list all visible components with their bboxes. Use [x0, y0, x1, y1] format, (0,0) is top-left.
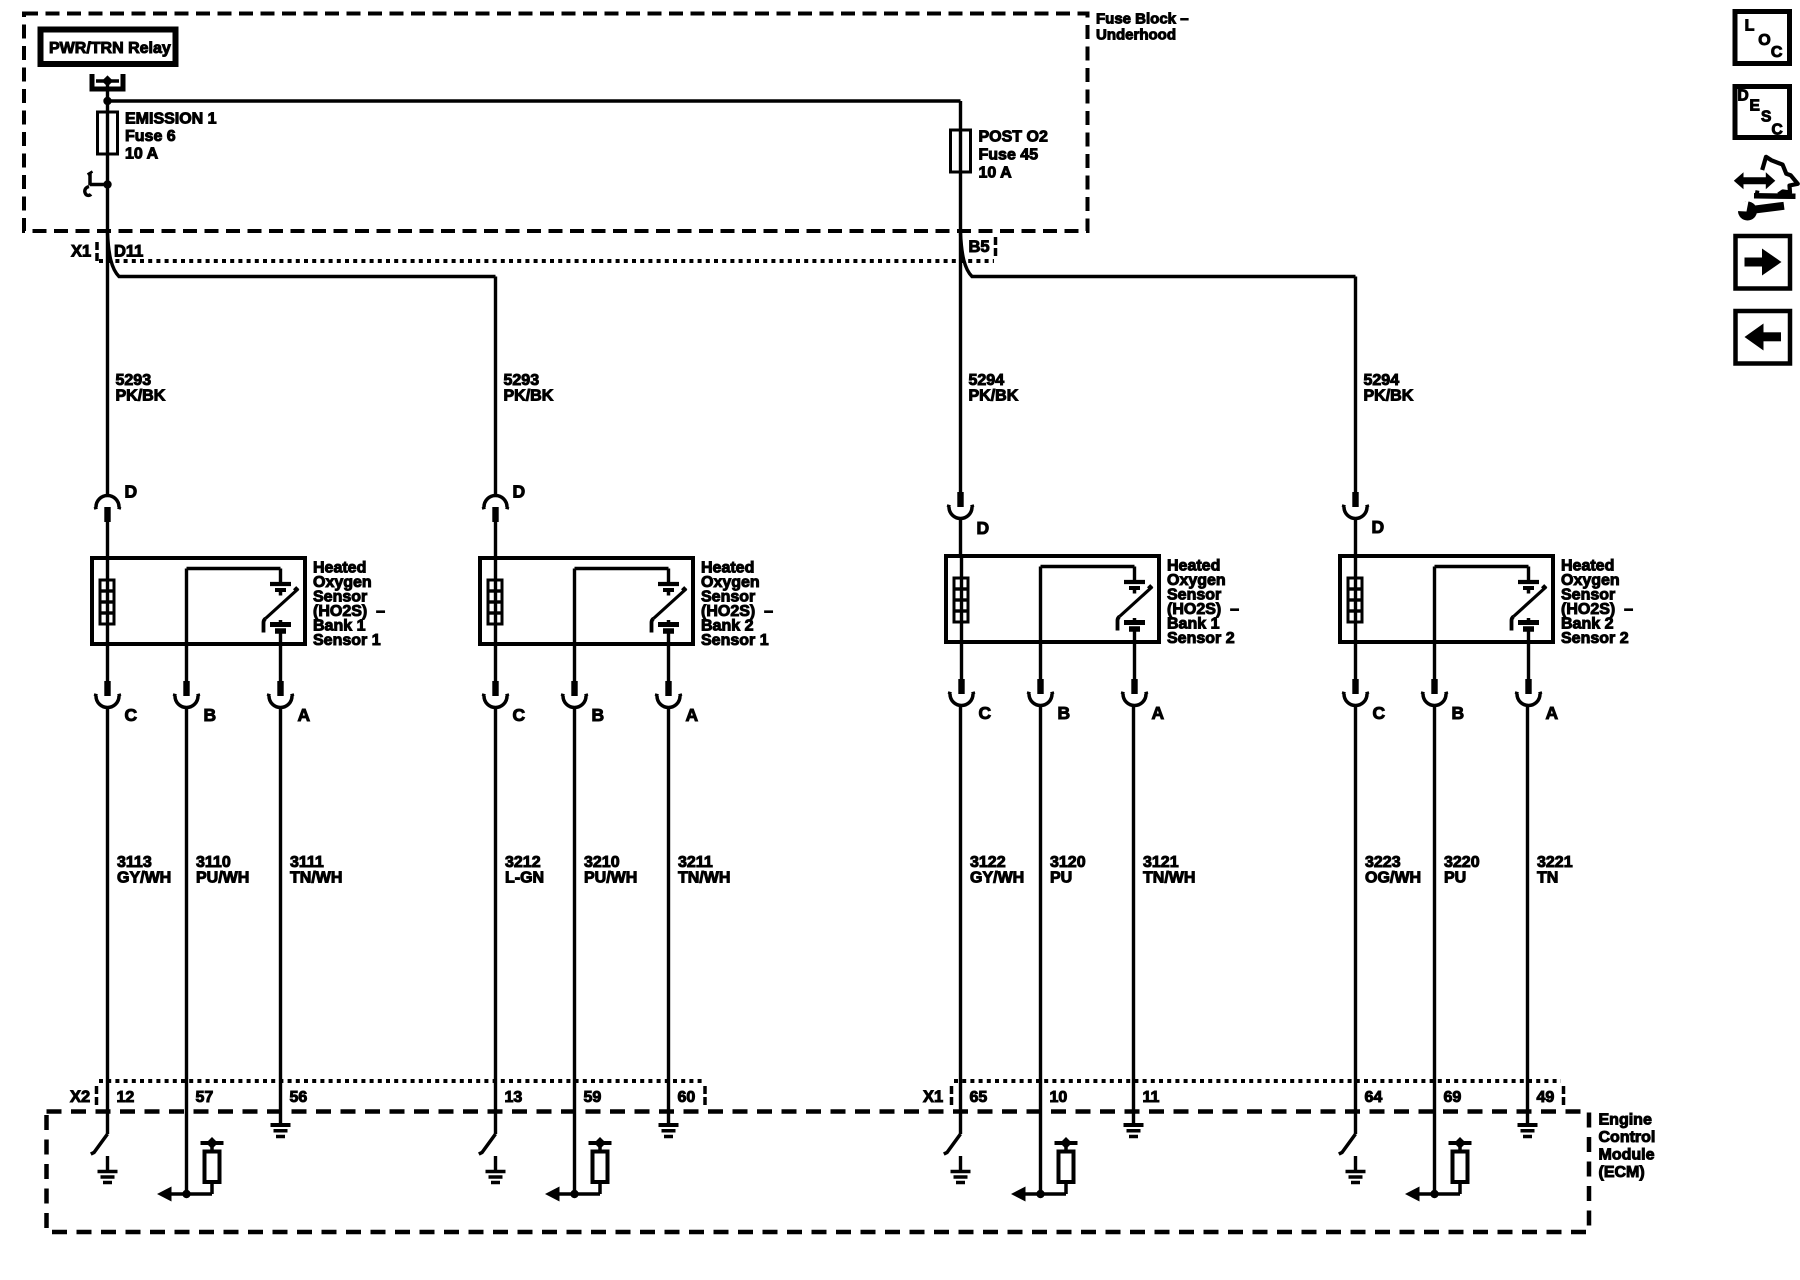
wire 3220 PU [1433, 706, 1436, 1194]
wire: B2S2 box to pin A [1527, 642, 1530, 679]
wire 3210 PU/WH [573, 708, 576, 1194]
svg-text:Sensor 1: Sensor 1 [313, 632, 381, 649]
ground pin 11 [1124, 1125, 1144, 1137]
svg-text:Fuse 6: Fuse 6 [125, 128, 176, 145]
wire label 3211 TN/WH [678, 854, 730, 887]
svg-text:56: 56 [290, 1089, 308, 1106]
ECM arrow pin 57 [157, 1187, 187, 1202]
pin connector C B1S1 [94, 681, 138, 725]
icon wrench [1736, 201, 1784, 221]
svg-text:60: 60 [678, 1089, 696, 1106]
connector B5 label [969, 237, 996, 256]
wire: B1S1 sense internal [187, 569, 281, 645]
svg-text:A: A [298, 705, 311, 725]
svg-text:C: C [979, 703, 992, 723]
ECM pin 49 label [1537, 1089, 1555, 1106]
pin connector A B2S2 [1515, 679, 1559, 723]
wire: B1S2 box to pin A [1133, 642, 1136, 679]
wire: contact down to HO2S B1S1 D [106, 185, 109, 497]
svg-text:X1: X1 [923, 1088, 943, 1106]
svg-text:PK/BK: PK/BK [969, 388, 1019, 405]
ECM pin 59 label [584, 1089, 602, 1106]
svg-text:3120: 3120 [1050, 854, 1086, 871]
pin connector A B1S1 [267, 681, 311, 725]
ECM switch blade pin 64 [1339, 1134, 1356, 1154]
svg-text:C: C [1771, 44, 1783, 61]
wire label 3122 GY/WH [970, 854, 1024, 887]
connector face dotted line [99, 259, 994, 263]
ECM pin 11 label [1143, 1089, 1160, 1106]
svg-text:TN: TN [1537, 870, 1558, 887]
svg-text:Sensor 1: Sensor 1 [701, 632, 769, 649]
wire 3121 TN/WH [1132, 706, 1135, 1123]
wire label 3220 PU [1444, 854, 1480, 887]
svg-text:Control: Control [1599, 1129, 1656, 1146]
svg-text:Fuse Block –: Fuse Block – [1096, 11, 1189, 28]
wire: B1S2 box to pin B [1039, 642, 1042, 679]
ECM sense resistor pin 10 [1041, 1137, 1078, 1194]
wire: B2S2 sense internal [1435, 567, 1529, 643]
ECM label [1599, 1112, 1656, 1182]
pin connector B B1S2 [1027, 679, 1070, 723]
svg-text:Sensor 2: Sensor 2 [1167, 630, 1235, 647]
svg-text:13: 13 [505, 1089, 523, 1106]
HO2S B1S1 text [313, 560, 385, 650]
svg-text:Engine: Engine [1599, 1112, 1652, 1129]
ECM pin 10 label [1050, 1089, 1068, 1106]
HO2S B2S1 box + heater [480, 558, 693, 644]
wire: B2S1 box to pin C [494, 644, 497, 681]
node: pin 10 junction [1036, 1190, 1044, 1198]
pin connector A B2S1 [655, 681, 699, 725]
svg-text:EMISSION 1: EMISSION 1 [125, 111, 217, 128]
wire label 3111 TN/WH [290, 854, 342, 887]
wire label 3223 OG/WH [1365, 854, 1421, 887]
svg-text:Module: Module [1599, 1147, 1655, 1164]
svg-text:GY/WH: GY/WH [117, 870, 171, 887]
relay PWR/TRN label box [41, 30, 176, 65]
ECM sense resistor pin 59 [575, 1137, 612, 1194]
ECM dashed box [47, 1112, 1590, 1233]
inline connector D branch4 [1342, 492, 1384, 537]
svg-text:E: E [1750, 98, 1760, 115]
svg-text:49: 49 [1537, 1089, 1555, 1106]
ECM connector face dotted right [954, 1079, 1561, 1083]
svg-text:11: 11 [1143, 1089, 1160, 1106]
wire: heater B1S2 [960, 556, 963, 642]
ground pin 56 [271, 1125, 291, 1137]
wire: branch 4 drop [1354, 277, 1357, 493]
svg-text:D: D [1372, 517, 1385, 537]
icon forward box [1736, 236, 1791, 289]
wire: junction down through fuse 6 [106, 101, 109, 185]
svg-text:3122: 3122 [970, 854, 1006, 871]
svg-text:5294: 5294 [969, 372, 1005, 389]
wire label 3110 PU/WH [196, 854, 249, 887]
svg-text:3211: 3211 [678, 854, 713, 871]
pin connector B B1S1 [173, 681, 216, 725]
fuse block - underhood dashed box [24, 14, 1088, 232]
svg-text:C: C [1373, 703, 1386, 723]
svg-text:B: B [1452, 703, 1465, 723]
wire: main feed horizontal [108, 99, 961, 102]
wire: B2S2 box to pin C [1354, 642, 1357, 679]
svg-text:3221: 3221 [1537, 854, 1573, 871]
wire label 5294 PK/BK [1364, 372, 1414, 405]
ECM sense resistor pin 57 [187, 1137, 224, 1194]
svg-text:3113: 3113 [117, 854, 152, 871]
ECM arrow pin 69 [1405, 1187, 1435, 1202]
svg-text:C: C [125, 705, 138, 725]
wire 3212 L-GN [494, 708, 497, 1134]
ECM connector separator right of 49 [1562, 1086, 1566, 1105]
svg-text:D: D [513, 482, 526, 502]
ECM connector separator right of 60 [703, 1086, 707, 1105]
icon back box [1736, 311, 1791, 364]
icon DESC box [1735, 87, 1790, 139]
svg-text:A: A [1152, 703, 1165, 723]
svg-text:3121: 3121 [1143, 854, 1179, 871]
ECM connector X1 label [923, 1086, 952, 1106]
wire: heater B2S2 [1354, 556, 1357, 642]
ECM pin 65 label [970, 1089, 988, 1106]
svg-text:PK/BK: PK/BK [504, 388, 554, 405]
pin connector B B2S2 [1421, 679, 1464, 723]
wire 3110 PU/WH [185, 708, 188, 1194]
ECM switch blade pin 65 [944, 1134, 961, 1154]
svg-text:Fuse 45: Fuse 45 [979, 147, 1039, 164]
wire label 3210 PU/WH [584, 854, 637, 887]
svg-text:D: D [977, 518, 990, 538]
ECM connector X2 label [70, 1086, 97, 1106]
svg-text:A: A [686, 705, 699, 725]
svg-text:TN/WH: TN/WH [290, 870, 342, 887]
svg-text:PK/BK: PK/BK [116, 388, 166, 405]
icon nav arrow outline [1754, 157, 1798, 197]
wire 3223 OG/WH [1354, 706, 1357, 1134]
svg-text:X1: X1 [71, 243, 91, 261]
ground (ECM) pin 12 [98, 1156, 118, 1183]
HO2S B2S2 box + heater [1340, 556, 1553, 642]
svg-text:57: 57 [196, 1089, 214, 1106]
svg-text:D11: D11 [114, 243, 143, 261]
inline connector D branch3 [947, 492, 989, 538]
svg-text:POST O2: POST O2 [979, 129, 1048, 146]
node: feed junction [103, 97, 111, 105]
ground pin 49 [1518, 1125, 1538, 1137]
wire label 5294 PK/BK [969, 372, 1019, 405]
svg-text:5293: 5293 [504, 372, 540, 389]
HO2S B1S2 text [1167, 558, 1239, 648]
svg-text:PU: PU [1050, 870, 1072, 887]
wire 3111 TN/WH [279, 708, 282, 1123]
svg-text:L-GN: L-GN [505, 870, 544, 887]
wire: heater B1S1 [106, 558, 109, 644]
wire label 3121 TN/WH [1143, 854, 1195, 887]
svg-text:PU/WH: PU/WH [584, 870, 637, 887]
svg-text:59: 59 [584, 1089, 602, 1106]
HO2S B1S1 box + heater [92, 558, 305, 644]
wire label 3113 GY/WH [117, 854, 171, 887]
ECM switch blade pin 13 [479, 1134, 496, 1154]
wire label 5293 PK/BK [504, 372, 554, 405]
ECM connector face dotted left [99, 1079, 703, 1083]
relay K pin bracket [90, 74, 126, 99]
wire: B2S1 box to pin B [573, 644, 576, 681]
svg-text:3223: 3223 [1365, 854, 1401, 871]
svg-text:B: B [1058, 703, 1071, 723]
wire: branch 3 drop [959, 233, 962, 493]
wire 3122 GY/WH [959, 706, 962, 1134]
pin connector C B1S2 [948, 679, 992, 723]
ECM switch blade pin 12 [91, 1134, 108, 1154]
wire: D to box3 [959, 519, 962, 559]
wire label 3221 TN [1537, 854, 1573, 887]
wire: B1S1 box to pin A [279, 644, 282, 681]
svg-text:S: S [1761, 108, 1771, 125]
svg-text:PK/BK: PK/BK [1364, 388, 1414, 405]
svg-text:(ECM): (ECM) [1599, 1164, 1645, 1181]
wire: D11 branch slant [108, 233, 496, 277]
svg-text:Sensor 2: Sensor 2 [1561, 630, 1629, 647]
wire: B1S1 box to pin B [185, 644, 188, 681]
sensor element B1S1 [264, 584, 300, 644]
svg-text:D: D [125, 482, 138, 502]
ECM pin 13 label [505, 1089, 523, 1106]
svg-text:OG/WH: OG/WH [1365, 870, 1421, 887]
svg-text:A: A [1546, 703, 1559, 723]
svg-text:64: 64 [1365, 1089, 1383, 1106]
svg-text:3220: 3220 [1444, 854, 1480, 871]
svg-text:PU: PU [1444, 870, 1466, 887]
sensor element B2S2 [1512, 582, 1548, 642]
svg-text:TN/WH: TN/WH [678, 870, 730, 887]
ground (ECM) pin 13 [486, 1156, 506, 1183]
svg-text:GY/WH: GY/WH [970, 870, 1024, 887]
svg-text:PU/WH: PU/WH [196, 870, 249, 887]
svg-text:3110: 3110 [196, 854, 231, 871]
svg-text:B: B [592, 705, 605, 725]
connector X1 D11 labels [71, 242, 143, 261]
pin connector C B2S2 [1342, 679, 1386, 723]
node: contact junction [103, 180, 111, 188]
ECM pin 56 label [290, 1089, 308, 1106]
icon nav double arrow [1734, 172, 1776, 189]
svg-text:D: D [1738, 88, 1749, 105]
pin connector A B1S2 [1121, 679, 1165, 723]
ECM pin 60 label [678, 1089, 696, 1106]
pin connector B B2S1 [561, 681, 604, 725]
wire label 3212 L-GN [505, 854, 544, 887]
svg-text:10 A: 10 A [979, 165, 1013, 182]
ECM pin 64 label [1365, 1089, 1383, 1106]
ground pin 60 [659, 1125, 679, 1137]
svg-text:10: 10 [1050, 1089, 1068, 1106]
pin connector C B2S1 [482, 681, 526, 725]
ECM arrow pin 10 [1011, 1187, 1041, 1202]
sensor element B1S2 [1118, 582, 1154, 642]
svg-text:3111: 3111 [290, 854, 324, 871]
wire: D to box1 [106, 522, 109, 560]
svg-text:TN/WH: TN/WH [1143, 870, 1195, 887]
svg-text:C: C [513, 705, 526, 725]
wire 3221 TN [1526, 706, 1529, 1123]
svg-text:X2: X2 [70, 1088, 90, 1106]
svg-text:B5: B5 [969, 238, 990, 256]
relay contact switch [85, 172, 108, 196]
svg-text:5293: 5293 [116, 372, 152, 389]
fuse F45 POST O2 [951, 101, 1048, 233]
wire label 3120 PU [1050, 854, 1086, 887]
wire 3120 PU [1039, 706, 1042, 1194]
HO2S B2S1 text [701, 560, 773, 650]
svg-text:B: B [204, 705, 217, 725]
node: pin 59 junction [570, 1190, 578, 1198]
svg-text:3212: 3212 [505, 854, 541, 871]
svg-text:12: 12 [117, 1089, 135, 1106]
HO2S B2S2 text [1561, 558, 1633, 648]
svg-text:PWR/TRN Relay: PWR/TRN Relay [49, 40, 171, 57]
wire: heater B2S1 [494, 558, 497, 644]
ECM arrow pin 59 [545, 1187, 575, 1202]
inline connector D branch2 [482, 482, 525, 523]
svg-text:C: C [1772, 122, 1783, 139]
svg-text:L: L [1745, 18, 1755, 35]
node: pin 57 junction [182, 1190, 190, 1198]
fuse F6 EMISSION 1 [98, 111, 217, 163]
icon LOC box [1735, 12, 1790, 64]
HO2S B1S2 box + heater [946, 556, 1159, 642]
wire 3211 TN/WH [667, 708, 670, 1123]
wire label 5293 PK/BK [116, 372, 166, 405]
wire: B5 branch slant [961, 233, 1356, 277]
ground (ECM) pin 65 [951, 1156, 971, 1183]
wire: B2S1 box to pin A [667, 644, 670, 681]
ECM sense resistor pin 69 [1435, 1137, 1472, 1194]
sensor element B2S1 [652, 584, 688, 644]
svg-text:10 A: 10 A [125, 146, 159, 163]
wire: D to box2 [494, 522, 497, 560]
wire: B2S2 box to pin B [1433, 642, 1436, 679]
ECM pin 57 label [196, 1089, 214, 1106]
wire: B1S2 sense internal [1041, 567, 1135, 643]
svg-text:69: 69 [1444, 1089, 1462, 1106]
wire: B1S1 box to pin C [106, 644, 109, 681]
node: pin 69 junction [1430, 1190, 1438, 1198]
ECM pin 69 label [1444, 1089, 1462, 1106]
wire: D to box4 [1354, 519, 1357, 559]
ground (ECM) pin 64 [1346, 1156, 1366, 1183]
ECM pin 12 label [117, 1089, 135, 1106]
svg-text:5294: 5294 [1364, 372, 1400, 389]
svg-text:65: 65 [970, 1089, 988, 1106]
svg-text:O: O [1758, 32, 1770, 49]
inline connector D branch1 [94, 482, 137, 523]
svg-text:Underhood: Underhood [1096, 27, 1176, 44]
svg-text:3210: 3210 [584, 854, 620, 871]
fuse block label [1096, 11, 1189, 44]
wire: B2S1 sense internal [575, 569, 669, 645]
wire: B1S2 box to pin C [960, 642, 963, 679]
wire 3113 GY/WH [106, 708, 109, 1134]
wire: branch 2 drop [494, 277, 497, 497]
